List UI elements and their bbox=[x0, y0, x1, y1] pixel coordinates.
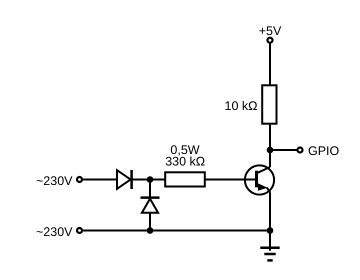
wire terminal to D1 bbox=[83, 179, 117, 181]
resistor R1 bbox=[262, 85, 276, 123]
ground bbox=[260, 248, 279, 261]
wire node B to D2 bbox=[149, 180, 151, 198]
wire node A to GPIO terminal bbox=[270, 149, 297, 151]
diode D1 bbox=[117, 170, 132, 189]
resistor R2 bbox=[165, 172, 205, 186]
terminal live bbox=[77, 177, 82, 182]
svg-text:GPIO: GPIO bbox=[308, 144, 340, 158]
diode D2 bbox=[141, 198, 160, 213]
wire D1 to R2 bbox=[132, 179, 165, 181]
node D junction bbox=[267, 227, 274, 234]
wire node A to collector bbox=[269, 150, 271, 167]
wire D2 to row2 bbox=[149, 213, 151, 231]
svg-text:~230V: ~230V bbox=[36, 174, 73, 188]
svg-text:+5V: +5V bbox=[259, 24, 282, 38]
node B junction bbox=[147, 176, 154, 183]
terminal neutral bbox=[77, 228, 82, 233]
svg-text:10 kΩ: 10 kΩ bbox=[225, 99, 258, 113]
wire +5V to R1 bbox=[269, 44, 271, 86]
emitter wire bbox=[269, 192, 271, 230]
wire row2 bbox=[83, 230, 270, 232]
svg-text:~230V: ~230V bbox=[36, 225, 73, 239]
transistor Q1 bbox=[245, 165, 274, 194]
wire R1 to node A bbox=[269, 125, 271, 150]
node C junction bbox=[147, 227, 154, 234]
terminal +5V bbox=[268, 38, 273, 43]
wire node D to ground bbox=[269, 231, 271, 251]
svg-text:330 kΩ: 330 kΩ bbox=[165, 155, 205, 169]
wire R2 to base bbox=[205, 179, 257, 181]
terminal GPIO bbox=[298, 148, 303, 153]
node A junction bbox=[267, 147, 274, 154]
